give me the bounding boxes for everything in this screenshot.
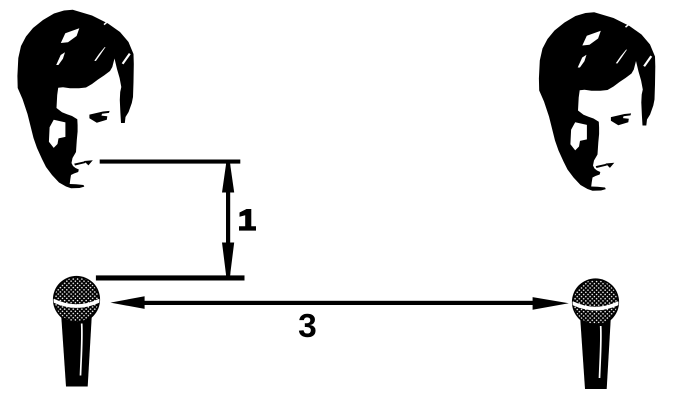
horizontal dimension shaft	[138, 301, 538, 305]
left microphone	[53, 276, 100, 387]
svg-text:3: 3	[298, 308, 317, 345]
mic level line	[96, 275, 245, 280]
mouth level line	[100, 160, 241, 164]
right head	[539, 12, 655, 191]
vertical arrowhead up	[222, 165, 234, 193]
horizontal arrowhead right	[533, 297, 569, 310]
label 1	[239, 209, 256, 231]
vertical dimension shaft	[226, 164, 230, 276]
vertical arrowhead down	[222, 243, 234, 275]
right microphone	[572, 278, 619, 389]
horizontal arrowhead left	[110, 296, 144, 309]
left head	[17, 10, 133, 189]
